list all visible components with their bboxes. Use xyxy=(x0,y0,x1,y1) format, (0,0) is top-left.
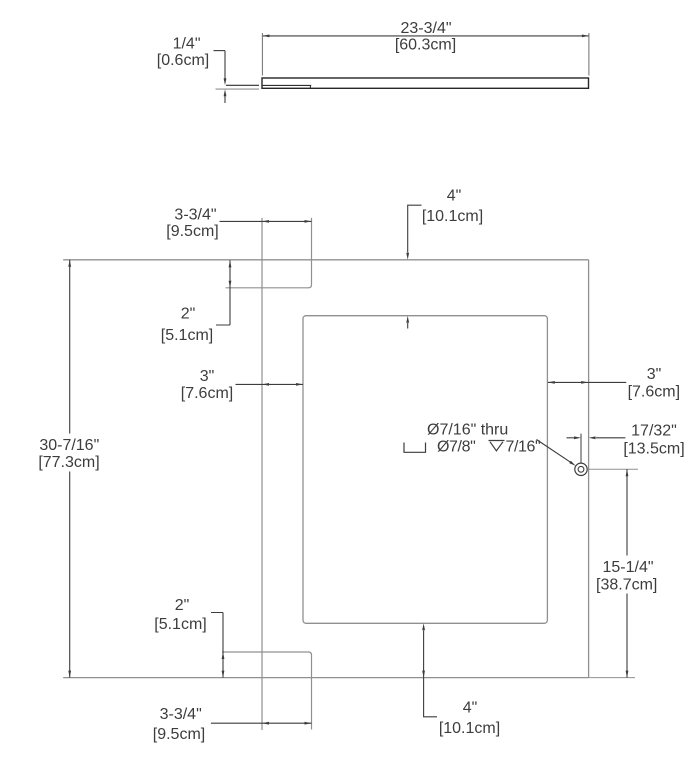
svg-text:[60.3cm]: [60.3cm] xyxy=(395,36,456,53)
svg-text:3": 3" xyxy=(647,366,662,383)
dim 3-3/4 top line with arrows xyxy=(220,220,312,222)
svg-text:[10.1cm]: [10.1cm] xyxy=(439,720,500,737)
dim 3-3/4 bottom line with arrows xyxy=(211,722,312,724)
svg-text:[9.5cm]: [9.5cm] xyxy=(153,726,205,743)
svg-text:1/4": 1/4" xyxy=(173,36,201,53)
svg-text:30-7/16": 30-7/16" xyxy=(39,437,99,454)
dim 4 bottom line with arrows and bracket xyxy=(424,631,437,717)
dim 1/4 lower leader with up arrow xyxy=(224,96,226,103)
dim 1/4 upper leader with down arrow xyxy=(224,51,226,79)
dim 2 top leader with arrows xyxy=(216,260,230,325)
hole leader diagonal with arrow xyxy=(537,440,571,463)
hole center horizontal extension line xyxy=(588,468,639,470)
panel bottom edge right extension xyxy=(589,677,635,679)
svg-text:Ø7/16" thru: Ø7/16" thru xyxy=(427,422,508,439)
dim 2 bottom leader with arrows xyxy=(211,613,223,678)
side-view inner step tick xyxy=(309,85,311,88)
svg-text:[10.1cm]: [10.1cm] xyxy=(422,208,483,225)
side-view inner step line xyxy=(262,84,311,86)
dim 17/32 left line with right arrow xyxy=(567,437,575,439)
svg-text:[5.1cm]: [5.1cm] xyxy=(161,327,213,344)
bottom notch top line xyxy=(222,651,309,653)
svg-text:3-3/4": 3-3/4" xyxy=(160,706,202,723)
dim 23-3/4 line with arrows xyxy=(262,35,589,37)
svg-text:[0.6cm]: [0.6cm] xyxy=(157,52,209,69)
svg-text:Ø7/8": Ø7/8" xyxy=(437,439,475,456)
dim 17/32 right line with left arrow xyxy=(596,437,625,439)
side-view left thin sheet bottom edge (extension) xyxy=(216,88,260,90)
svg-text:[38.7cm]: [38.7cm] xyxy=(596,576,657,593)
svg-text:[9.5cm]: [9.5cm] xyxy=(166,223,218,240)
bend line full height xyxy=(261,218,263,730)
svg-text:17/32": 17/32" xyxy=(631,422,677,439)
dim 30-7/16 vertical line with arrows xyxy=(69,260,71,678)
dim 4 top bracket and arrows xyxy=(408,205,422,252)
svg-text:2": 2" xyxy=(175,597,190,614)
svg-text:15-1/4": 15-1/4" xyxy=(602,559,653,576)
svg-text:4": 4" xyxy=(463,699,478,716)
side-view left thin sheet top edge xyxy=(226,84,259,86)
hole callout counterbore symbol xyxy=(404,443,426,453)
panel right edge xyxy=(588,260,590,678)
svg-text:4": 4" xyxy=(447,188,462,205)
dim 15-1/4 vertical line with arrows xyxy=(626,469,628,677)
bottom notch right edge xyxy=(309,652,312,730)
top notch right edge xyxy=(309,218,312,288)
svg-text:[13.5cm]: [13.5cm] xyxy=(623,440,684,457)
svg-text:[7.6cm]: [7.6cm] xyxy=(181,385,233,402)
hole callout depth symbol xyxy=(489,441,505,451)
svg-text:2": 2" xyxy=(181,306,196,323)
inner rounded rectangle opening xyxy=(303,316,547,624)
dim 23-3/4 left extension line xyxy=(261,33,263,76)
hole counterbore outer circle xyxy=(575,463,587,475)
dim 17/32 hole center tick xyxy=(580,434,582,463)
svg-text:23-3/4": 23-3/4" xyxy=(400,20,451,37)
svg-text:7/16": 7/16" xyxy=(506,439,541,456)
panel top edge xyxy=(63,259,588,261)
svg-text:3-3/4": 3-3/4" xyxy=(174,206,216,223)
svg-text:3": 3" xyxy=(200,368,215,385)
top notch bottom line xyxy=(226,287,310,289)
panel bottom edge xyxy=(63,677,588,679)
svg-text:[7.6cm]: [7.6cm] xyxy=(628,384,680,401)
dim 1/4 bracket xyxy=(214,50,226,52)
dim 23-3/4 right extension line xyxy=(588,33,590,76)
svg-text:[77.3cm]: [77.3cm] xyxy=(38,454,99,471)
dim 3 left line with arrows xyxy=(236,383,304,385)
svg-text:[5.1cm]: [5.1cm] xyxy=(154,616,206,633)
side-view bar outline xyxy=(262,78,589,88)
hole inner circle xyxy=(578,466,584,472)
dim 3 right line with arrows xyxy=(548,381,627,383)
